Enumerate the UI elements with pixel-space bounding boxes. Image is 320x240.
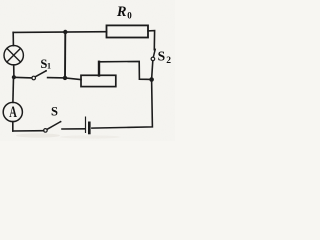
wire J4 to rheostat left end	[65, 78, 81, 80]
node J3 junction dot	[12, 75, 16, 79]
svg-text:A: A	[9, 103, 17, 121]
battery cell short plate	[88, 123, 91, 133]
svg-text:R: R	[116, 4, 127, 20]
switch S contact circle	[44, 129, 48, 133]
wire S to bottom-left	[13, 130, 44, 132]
switch S blade	[47, 122, 60, 129]
wire ammeter bottom to bottom rail	[12, 122, 14, 131]
wire middle row J3 to S1	[14, 76, 32, 79]
wire J3 down to ammeter	[12, 77, 15, 102]
svg-text:1: 1	[47, 62, 51, 71]
battery cell long plate	[85, 117, 87, 132]
wire tap to right	[99, 61, 152, 79]
rheostat slider tap	[98, 62, 100, 76]
svg-text:0: 0	[127, 11, 132, 21]
wire S2 to node J2	[152, 61, 153, 80]
ammeter A	[3, 102, 22, 121]
wire top-left horizontal (lamp top corner to resistor)	[13, 31, 106, 34]
wire resistor right to corner	[148, 31, 155, 50]
lamp L1 (circle with X)	[4, 46, 23, 65]
switch S2 blade	[153, 49, 155, 57]
svg-text:S: S	[158, 48, 166, 63]
node J4 junction dot	[63, 76, 67, 80]
wire J1 to J4 vertical	[64, 32, 66, 78]
wire lamp bottom to node J3	[13, 65, 15, 77]
wire J2 down to bottom-right corner	[92, 80, 152, 129]
node J2 junction dot	[149, 77, 154, 82]
resistor R0	[107, 25, 149, 37]
switch S1 contact circle	[32, 76, 36, 80]
wire S1 to node J4	[48, 77, 65, 79]
wire battery to switch S	[62, 128, 85, 130]
node J1 junction dot on top wire	[63, 30, 67, 34]
svg-text:S: S	[51, 104, 58, 118]
switch S2 contact circle	[151, 57, 155, 61]
switch S1 blade	[35, 71, 46, 77]
wire lamp top vertical	[12, 32, 14, 45]
svg-text:2: 2	[166, 56, 171, 66]
rheostat R (slider box)	[81, 75, 116, 86]
